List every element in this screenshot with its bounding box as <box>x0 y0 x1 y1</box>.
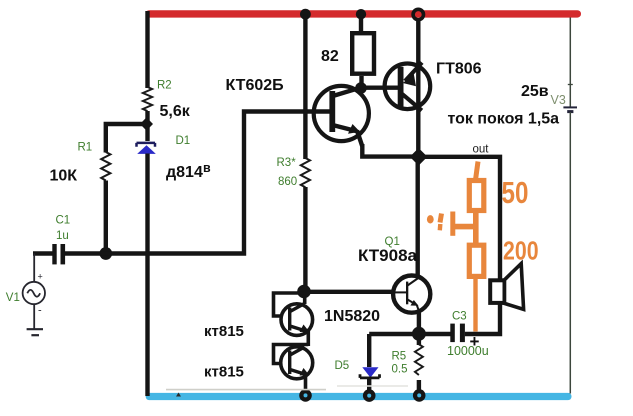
svg-text:R2: R2 <box>157 80 172 92</box>
wire: emitter node row to C3 and D5 corner <box>369 332 450 336</box>
emitter node junction dot <box>412 327 426 341</box>
svg-text:1N5820: 1N5820 <box>324 308 380 325</box>
svg-text:D5: D5 <box>335 360 350 372</box>
svg-text:ГТ806: ГТ806 <box>436 61 482 78</box>
speaker <box>490 264 523 310</box>
wire faint artifact above ground rail right <box>337 385 408 387</box>
value 50 (orange) <box>502 175 529 210</box>
svg-text:50: 50 <box>502 175 529 210</box>
V+ rail (red) <box>146 10 582 17</box>
driver node junction dot <box>297 285 311 299</box>
source V1 <box>23 254 45 330</box>
svg-text:10К: 10К <box>50 168 78 185</box>
junction B dot <box>355 82 367 94</box>
terminal node D5 on ground rail <box>363 389 376 402</box>
zener diode D1 <box>137 143 156 154</box>
svg-text:R5: R5 <box>392 351 407 363</box>
wire: emitter node to R5 <box>417 334 421 345</box>
svg-text:5,6к: 5,6к <box>160 103 191 120</box>
svg-text:V3: V3 <box>551 93 566 107</box>
wire: Q1 emitter down to emitter node <box>417 313 421 335</box>
wire: R2 to node A <box>145 111 149 141</box>
orange wiper dot <box>427 215 434 223</box>
wire: rail ring down through T2 to out node <box>416 19 420 156</box>
node ring on rail above T2 <box>413 9 423 19</box>
wire: 82 box to junction B <box>359 76 363 88</box>
node A junction dot <box>140 117 153 130</box>
capacitor C3 <box>450 324 465 343</box>
svg-text:1u: 1u <box>56 230 69 242</box>
svg-text:-: - <box>38 305 42 317</box>
wire: R1 down to input node <box>104 181 108 254</box>
svg-text:кт815: кт815 <box>204 363 244 380</box>
value 200 (orange) <box>503 237 539 267</box>
wire: R3 down to driver node <box>303 187 307 292</box>
terminal node left on ground rail <box>299 389 312 402</box>
svg-text:D1: D1 <box>176 135 191 147</box>
transistor T1 KT602B <box>314 86 369 146</box>
ground symbol <box>27 329 43 335</box>
transistor Q3 кт815 (diode connected) <box>281 347 313 393</box>
svg-text:R3*: R3* <box>277 157 297 169</box>
svg-text:25в: 25в <box>521 83 549 100</box>
orange lead from out wire <box>476 162 478 179</box>
resistor R1 <box>101 152 110 180</box>
svg-text:0.5: 0.5 <box>392 364 408 376</box>
battery V3 wire lower <box>569 112 571 394</box>
svg-text:out: out <box>473 144 490 156</box>
resistor R3 <box>301 158 310 187</box>
svg-text:в: в <box>203 161 211 175</box>
wire: D5 branch <box>367 334 371 367</box>
transistor T2 GT806 <box>385 63 431 111</box>
wire: C1 to corner to T1 base <box>65 112 332 254</box>
input node junction dot <box>99 247 112 260</box>
transistor Q2 кт815 (diode connected) <box>281 295 313 346</box>
кт815 stack: bracket 2 <box>274 345 309 364</box>
schottky diode D5 <box>360 367 380 392</box>
wire: node A to R1 branch <box>106 124 147 153</box>
wire: junction B to T2 base <box>361 85 399 89</box>
node on rail above R3 <box>300 9 311 20</box>
orange lead to C3 plus <box>473 279 477 332</box>
wire: out node to speaker branch corner <box>419 157 500 281</box>
svg-text:КТ602Б: КТ602Б <box>226 77 284 94</box>
wire: rail to 82 box <box>359 14 363 33</box>
svg-text:82: 82 <box>321 48 339 65</box>
svg-text:кт815: кт815 <box>204 323 244 340</box>
svg-text:КТ908а: КТ908а <box>358 246 418 265</box>
orange resistor 50 (box) <box>469 181 484 211</box>
wire: out node down to Q1 collector <box>416 157 420 276</box>
terminal node R5 on ground rail <box>413 389 426 402</box>
svg-text:ток покоя 1,5а: ток покоя 1,5а <box>448 111 560 128</box>
resistor R2 <box>143 87 152 111</box>
orange resistor 200 (box) <box>469 245 484 276</box>
кт815 stack: bracket 1 <box>274 293 305 316</box>
node on rail above 82 resistor <box>356 9 366 19</box>
wire: C3 to speaker return <box>465 303 500 334</box>
wire: driver node to Q1 base <box>304 290 394 294</box>
battery V3 plates <box>563 107 577 111</box>
out node junction dot <box>410 148 428 166</box>
svg-text:д814: д814 <box>166 164 203 181</box>
battery V3 wire upper <box>569 18 571 108</box>
orange wiper tap <box>440 212 473 236</box>
wire: rail down to R3 <box>303 14 307 159</box>
svg-text:200: 200 <box>503 237 539 267</box>
transistor Q1 KT908a <box>393 276 430 313</box>
capacitor C1 <box>52 244 65 264</box>
wire: T1 emitter to out node <box>362 144 414 157</box>
node small mark on ground rail <box>176 393 181 397</box>
ground rail (cyan) <box>146 393 572 400</box>
svg-text:+: + <box>38 272 43 282</box>
resistor 82 (box) <box>352 33 374 73</box>
wire faint artifact above ground rail <box>166 389 326 391</box>
svg-text:10000u: 10000u <box>447 344 489 358</box>
svg-text:C3: C3 <box>452 311 467 323</box>
svg-text:R1: R1 <box>78 142 93 154</box>
wire: D1 down to ground rail <box>145 154 149 397</box>
wire: V1 to C1 <box>33 251 53 255</box>
wire: R5 to ground terminal <box>417 380 421 393</box>
svg-text:860: 860 <box>278 176 297 188</box>
battery V3 tick <box>568 84 573 86</box>
svg-text:V1: V1 <box>6 292 20 304</box>
resistor R5 <box>415 344 423 375</box>
wire: left rail drop to R2 <box>145 11 149 88</box>
orange link between boxes <box>473 211 479 243</box>
svg-text:C1: C1 <box>56 215 71 227</box>
